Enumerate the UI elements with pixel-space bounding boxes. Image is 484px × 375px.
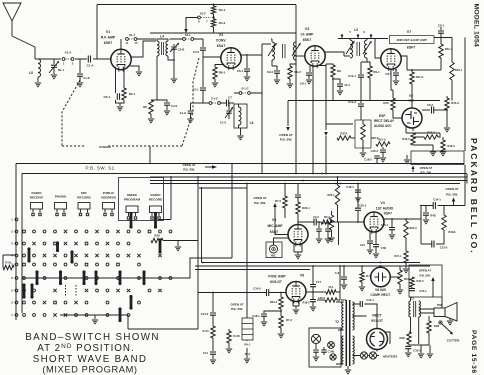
svg-text:S1-F: S1-F <box>200 12 206 16</box>
wire x447 top <box>440 109 447 111</box>
svg-text:R4B: R4B <box>430 214 435 218</box>
switch bar 6 <box>159 240 162 252</box>
wire V6 grid <box>240 292 266 294</box>
svg-text:C15-5: C15-5 <box>440 246 448 250</box>
wire cathode join <box>116 100 125 106</box>
coil L8 <box>38 59 41 77</box>
wire V8 top <box>380 266 382 267</box>
wire x313 drop <box>312 66 314 174</box>
wire V3 screen <box>320 64 333 66</box>
ground R6 <box>148 119 154 123</box>
capacitor C18-1 <box>357 184 359 190</box>
svg-text:C6-1: C6-1 <box>237 69 244 73</box>
wire bus line 4 <box>150 183 460 185</box>
arrow V5 grid <box>273 203 277 207</box>
trimmer L6 arrow 1 <box>268 43 277 56</box>
capacitor C16-1 <box>391 219 393 227</box>
svg-text:6SA7: 6SA7 <box>217 44 226 48</box>
capacitor C1-A <box>88 56 90 63</box>
capacitor C14-3 <box>210 313 216 315</box>
resistor R21-A <box>376 142 390 146</box>
capacitor C13A <box>318 222 320 228</box>
wire subbox bar out <box>158 177 171 220</box>
switch button MIC <box>78 203 90 210</box>
ground R29 <box>175 247 181 251</box>
svg-text:R15-3: R15-3 <box>451 101 459 105</box>
capacitor C10-1 <box>358 75 364 77</box>
svg-text:P.B. SW.: P.B. SW. <box>446 193 458 197</box>
svg-text:EXP: EXP <box>379 114 386 118</box>
wire left stub <box>3 255 16 268</box>
svg-text:C2-3: C2-3 <box>313 215 319 219</box>
svg-text:OPEN AT: OPEN AT <box>419 269 431 273</box>
transformer T2 core <box>346 300 349 366</box>
transformer T3 primary <box>409 301 411 317</box>
resistor R2-3 <box>316 221 321 223</box>
tube V1 <box>111 49 131 69</box>
svg-text:P.B. SW.: P.B. SW. <box>183 168 195 172</box>
ground R6-1 <box>214 79 216 82</box>
wire switch bus row6 <box>22 277 175 279</box>
capacitor CK-1 <box>117 93 119 100</box>
ground trimmer <box>51 75 57 79</box>
wire bus y100 <box>288 100 440 102</box>
svg-text:R7-5: R7-5 <box>275 199 282 203</box>
transformer L6 primary <box>272 42 275 60</box>
capacitor C3-2 <box>200 48 206 50</box>
wire V2 plate <box>241 55 262 68</box>
ground C1-K <box>77 83 83 87</box>
svg-text:PAGE 15-36: PAGE 15-36 <box>470 330 477 374</box>
ground V6 cathode <box>293 310 299 314</box>
wire L5 sec bottom <box>361 58 367 74</box>
capacitor C2-3 <box>314 219 316 226</box>
svg-text:POW. AMP: POW. AMP <box>268 275 286 279</box>
wire V1 heater gnd <box>130 66 139 71</box>
switch contacts row y255.5 <box>23 254 26 257</box>
ground V5 cathode <box>295 255 301 259</box>
svg-text:P.B. SW. S1: P.B. SW. S1 <box>85 166 114 171</box>
antenna <box>3 3 21 36</box>
svg-text:C1-5: C1-5 <box>220 121 227 125</box>
wire rail drop right <box>295 5 297 174</box>
tube V5 <box>288 225 308 245</box>
ground matrix <box>94 315 96 319</box>
ground right 1 <box>420 345 422 353</box>
ground R19 <box>328 238 334 242</box>
wire x444 drop <box>443 206 445 216</box>
capacitor C15-1 <box>411 287 413 288</box>
wire V3 cathode <box>309 66 311 72</box>
svg-text:T.3: T.3 <box>410 297 414 301</box>
switch contacts row y315 <box>23 314 26 317</box>
svg-text:OPEN AT: OPEN AT <box>230 303 243 307</box>
ground C9-2 <box>274 80 280 84</box>
svg-text:V1: V1 <box>106 30 110 34</box>
svg-text:V9: V9 <box>409 94 413 98</box>
tube V2 <box>221 48 241 68</box>
svg-text:CK-1: CK-1 <box>103 95 110 99</box>
ground C13B <box>325 239 331 243</box>
transformer T2 secondary <box>353 302 355 330</box>
capacitor C14-3a <box>333 79 340 83</box>
svg-text:AT 2ND POSITION.: AT 2ND POSITION. <box>37 343 134 354</box>
wire V1 plate stub <box>120 39 122 49</box>
wire rail y33 <box>150 32 296 34</box>
transformer L4 core <box>162 42 164 55</box>
wire V1 cathode left <box>115 69 117 93</box>
svg-text:6SQ7: 6SQ7 <box>270 230 279 234</box>
ground C13A <box>316 239 322 243</box>
svg-text:V2: V2 <box>219 33 223 37</box>
wire top rail B+ <box>97 4 296 6</box>
svg-text:C15-1: C15-1 <box>419 289 427 293</box>
wire V4 grid <box>339 221 365 223</box>
switch S1-F <box>198 16 201 19</box>
svg-text:C1-G: C1-G <box>180 111 187 115</box>
box OPEN AT 1 right <box>411 151 464 165</box>
capacitor C21-A <box>382 147 384 149</box>
switch contacts row y264.5 <box>23 263 26 266</box>
svg-text:OPEN AT: OPEN AT <box>445 187 458 191</box>
svg-text:L6: L6 <box>250 121 254 125</box>
wire T3 bottom leads <box>411 317 419 344</box>
wire mic jack up <box>274 238 290 245</box>
wire V7 plate loop <box>434 37 452 39</box>
svg-text:PHONO: PHONO <box>55 195 67 199</box>
switch button RADIO <box>31 203 43 210</box>
resistor R23-1 <box>337 177 339 185</box>
svg-text:R38: R38 <box>400 336 405 340</box>
svg-text:R9: R9 <box>337 69 341 73</box>
svg-text:V7: V7 <box>407 30 411 34</box>
resistor R15-2v <box>280 293 282 298</box>
svg-text:R28: R28 <box>434 324 440 328</box>
svg-text:R11-4: R11-4 <box>445 47 453 51</box>
wire V9 below <box>406 126 440 133</box>
svg-text:P.B. SW.: P.B. SW. <box>231 307 243 311</box>
wire C7 to L6sec <box>229 102 234 104</box>
switch S1-A <box>62 58 65 61</box>
resistor R24v <box>399 266 401 270</box>
transformer T2 primary <box>342 302 344 330</box>
wire rect right <box>385 332 390 344</box>
switch button RADIO <box>150 206 162 213</box>
svg-text:R16-3: R16-3 <box>447 144 455 148</box>
wire R-34 down <box>212 338 214 351</box>
resistor R16-1 <box>450 62 454 80</box>
svg-text:R21-A: R21-A <box>378 138 386 142</box>
capacitor C18-3 <box>374 156 380 158</box>
svg-text:6V6-GT: 6V6-GT <box>270 280 283 284</box>
switch button PHONO <box>55 203 67 210</box>
ground C11 <box>212 354 214 359</box>
resistor R38 <box>407 332 411 344</box>
capacitor R4B <box>423 213 429 215</box>
svg-text:P.B. SW.: P.B. SW. <box>254 201 266 205</box>
wire y345 h <box>409 333 429 345</box>
ground right 1b <box>418 354 424 358</box>
capacitor C6-2 <box>422 109 430 111</box>
lamp dial 3 <box>330 354 336 360</box>
resistor R11-4 <box>440 38 442 45</box>
wire C20-1 down <box>357 210 359 222</box>
svg-text:6SH7: 6SH7 <box>104 41 113 45</box>
svg-text:C1-K: C1-K <box>83 76 90 80</box>
ground C18-5 <box>310 307 316 311</box>
svg-text:C14-4: C14-4 <box>366 298 374 302</box>
wire y294 h <box>198 292 240 294</box>
arrow down to S1-L line <box>184 29 188 33</box>
arrow OPEN AT 6 <box>411 166 414 170</box>
trimmer C1-C <box>228 103 230 110</box>
ground V1 cathode <box>117 107 123 111</box>
svg-text:V4: V4 <box>380 201 384 205</box>
svg-text:C4-6: C4-6 <box>171 104 178 108</box>
resistor R9-1 <box>368 66 372 78</box>
ground V9 mid <box>430 152 436 156</box>
svg-text:R.F. AMP: R.F. AMP <box>101 36 116 40</box>
svg-text:I.F. AMP: I.F. AMP <box>301 33 315 37</box>
capacitor C16-2t <box>190 103 192 110</box>
wire gang dashed <box>62 80 80 146</box>
switch bar 16 <box>119 309 122 321</box>
svg-text:RECORD: RECORD <box>149 197 163 201</box>
transformer L5 primary <box>350 40 353 58</box>
wire bus line 3 <box>150 180 467 182</box>
speaker PM <box>434 308 445 317</box>
svg-text:C21: C21 <box>360 243 365 247</box>
wire C5-1 down <box>203 90 208 103</box>
wire rail drop left <box>96 5 98 60</box>
wire grid cont <box>269 292 287 294</box>
svg-text:C9-2: C9-2 <box>267 70 274 74</box>
wire matrix right link <box>175 258 232 278</box>
svg-text:C2-B: C2-B <box>178 48 185 52</box>
wire T3 top lead <box>410 297 412 301</box>
capacitor C8-1 <box>440 27 442 30</box>
wire C10-1 down <box>360 77 362 103</box>
capacitor C7 <box>227 100 229 107</box>
wire V1 cathode right <box>123 67 125 88</box>
resistor R28 <box>428 316 430 321</box>
wire OT wires <box>246 293 248 342</box>
svg-text:C18-1: C18-1 <box>346 185 354 189</box>
wire arrow right <box>205 166 214 168</box>
capacitor C18-1L <box>264 311 281 313</box>
resistor R29 <box>151 238 163 242</box>
svg-text:(MIXED PROGRAM): (MIXED PROGRAM) <box>42 365 137 375</box>
wire C14-3 chain <box>212 293 214 313</box>
switch contacts row y290.5 <box>23 289 26 292</box>
svg-text:R-38: R-38 <box>233 334 240 338</box>
transformer T3 secondary <box>419 301 421 317</box>
wire V4 cathode 2 <box>375 231 377 245</box>
svg-text:R20-1: R20-1 <box>302 206 310 210</box>
node line A (y59) <box>35 58 111 60</box>
svg-text:C6-2: C6-2 <box>427 103 434 107</box>
svg-text:R9-2: R9-2 <box>294 70 301 74</box>
ground R15-3 <box>444 128 450 132</box>
resistor R6-1 <box>213 67 217 79</box>
wire screen drop x326 <box>326 66 353 131</box>
capacitor C19-1 <box>407 345 409 346</box>
resistor R27b <box>325 298 337 302</box>
switch contacts row y231.5 <box>23 230 26 233</box>
ground C4-6 <box>164 111 170 115</box>
trimmer cap <box>53 59 55 64</box>
resistor R15 <box>391 98 395 110</box>
svg-text:P.B. SW.: P.B. SW. <box>280 138 292 142</box>
wire to C7 <box>203 102 226 104</box>
svg-text:C1-A: C1-A <box>86 64 94 68</box>
wire x421 link <box>420 206 422 245</box>
svg-text:C8-1: C8-1 <box>438 24 445 28</box>
svg-text:R11-2: R11-2 <box>416 75 424 79</box>
wire switch dashed pair <box>66 285 77 296</box>
ground V1 right <box>136 72 142 76</box>
ground R7-3 <box>278 334 284 338</box>
svg-text:R15-2: R15-2 <box>427 131 435 135</box>
transformer OT left <box>242 318 253 340</box>
ground C18-1L <box>261 322 267 326</box>
wire right col vertical <box>464 165 466 206</box>
wire R16-3 wires <box>442 137 444 152</box>
svg-text:C11: C11 <box>203 351 208 355</box>
trimmer C2-B <box>173 44 175 46</box>
svg-text:R16-1: R16-1 <box>455 68 463 72</box>
resistor R24lead <box>390 276 400 278</box>
svg-text:C7B: C7B <box>381 246 386 250</box>
capacitor C9-1 <box>306 73 312 75</box>
capacitor C13B <box>327 222 329 228</box>
svg-text:51A: 51A <box>329 285 334 289</box>
capacitor C6-1 <box>244 69 250 71</box>
svg-text:RECT DELAY: RECT DELAY <box>374 119 395 123</box>
svg-text:6SF7: 6SF7 <box>407 46 416 50</box>
svg-text:R-51: R-51 <box>5 261 12 265</box>
wire x338 drop <box>338 222 340 245</box>
ground V9 bottom <box>404 160 410 164</box>
capacitor C9-2 <box>271 60 273 66</box>
wire bus y266 <box>195 265 430 267</box>
capacitor C14-5 <box>267 289 269 296</box>
svg-text:R7-3: R7-3 <box>286 318 292 322</box>
resistor R9-2 <box>290 60 296 66</box>
resistor R11-2 <box>406 69 408 71</box>
switch bar 11 <box>119 272 122 284</box>
ground right 2 <box>429 345 431 353</box>
svg-text:C19-1: C19-1 <box>413 349 421 353</box>
wire V7 grid <box>375 39 381 59</box>
svg-text:P.B. SW.: P.B. SW. <box>420 170 432 174</box>
svg-text:GANGED: GANGED <box>99 145 111 149</box>
ground L8 <box>35 83 41 87</box>
wire C17 down <box>312 287 314 300</box>
resistor R23A <box>442 215 446 230</box>
capacitor C1-K <box>79 59 81 73</box>
svg-text:OPEN AT: OPEN AT <box>279 133 293 137</box>
box mic shield <box>266 242 282 258</box>
wire R27A link <box>351 137 355 139</box>
svg-text:V3: V3 <box>305 27 309 31</box>
resistor R7-5 <box>284 184 286 197</box>
tube V7 <box>381 49 401 69</box>
svg-text:R19: R19 <box>322 221 328 225</box>
arrow box2 <box>431 277 435 281</box>
svg-text:R17-1: R17-1 <box>394 254 402 258</box>
switch S1-Cb <box>239 92 242 95</box>
wire L4 sec bottom <box>168 56 174 60</box>
capacitor C7B <box>373 245 379 247</box>
svg-text:C-8: C-8 <box>335 271 340 275</box>
svg-text:RECT: RECT <box>372 314 382 318</box>
wire x340 v <box>339 266 341 300</box>
svg-text:C14B: C14B <box>328 350 335 354</box>
resistor R6 <box>151 99 157 101</box>
svg-text:R9-1: R9-1 <box>373 70 380 74</box>
tube V4 <box>364 212 384 232</box>
wire V4 cathode 1 <box>369 231 371 240</box>
wire bus y262 <box>202 262 421 264</box>
wire L4 tops <box>157 39 168 41</box>
resistor R19 <box>331 211 333 215</box>
svg-text:C18-2: C18-2 <box>364 158 372 162</box>
wire x426 drop <box>425 206 427 213</box>
capacitor C5-1 <box>200 88 206 90</box>
svg-text:R18-5: R18-5 <box>302 301 310 305</box>
svg-text:S-1-C: S-1-C <box>211 97 218 101</box>
svg-text:PACKARD BELL CO.: PACKARD BELL CO. <box>469 138 479 255</box>
wire bus line 2 <box>150 176 467 178</box>
wire matrix bottom <box>60 315 198 329</box>
svg-text:IN-6: IN-6 <box>245 352 251 356</box>
svg-text:1ST AUDIO: 1ST AUDIO <box>376 207 394 211</box>
svg-text:5Y3-GT: 5Y3-GT <box>371 319 384 323</box>
resistor R15-3b <box>410 277 414 287</box>
svg-text:C14-5: C14-5 <box>253 287 261 291</box>
svg-text:OPEN AT: OPEN AT <box>253 196 266 200</box>
wire V3 grid <box>296 55 305 57</box>
box dial lamps <box>309 328 341 367</box>
svg-text:CONV.: CONV. <box>216 39 227 43</box>
svg-text:HEATERS: HEATERS <box>383 355 398 359</box>
needle cutter <box>439 321 442 324</box>
svg-text:V5: V5 <box>272 218 276 222</box>
wire V2 grid chain <box>202 39 204 47</box>
transformer L6 secondary <box>293 42 296 60</box>
wire R15-2 wires <box>413 133 440 137</box>
ground C6-3 <box>393 81 399 85</box>
svg-text:C7: C7 <box>228 96 232 100</box>
trimmer L5 arrow 2 <box>363 41 372 54</box>
svg-text:C3-2: C3-2 <box>193 50 200 54</box>
switch S1-T <box>126 38 129 41</box>
ground C21 <box>367 250 373 254</box>
wire y205 h <box>420 205 465 207</box>
resistor R7-3 <box>280 314 282 316</box>
svg-text:PA-1: PA-1 <box>244 343 251 347</box>
svg-text:6SK7: 6SK7 <box>303 38 312 42</box>
trimmer L5 arrow 1 <box>346 41 355 54</box>
wire B+ vertical x262 <box>261 44 263 174</box>
svg-text:R4-1: R4-1 <box>219 8 226 12</box>
svg-text:S1-A: S1-A <box>65 51 73 55</box>
svg-text:C17: C17 <box>316 280 322 284</box>
box V7 label <box>390 36 435 44</box>
svg-text:COMP. RECT.: COMP. RECT. <box>370 293 390 297</box>
svg-text:R23A: R23A <box>448 230 455 234</box>
